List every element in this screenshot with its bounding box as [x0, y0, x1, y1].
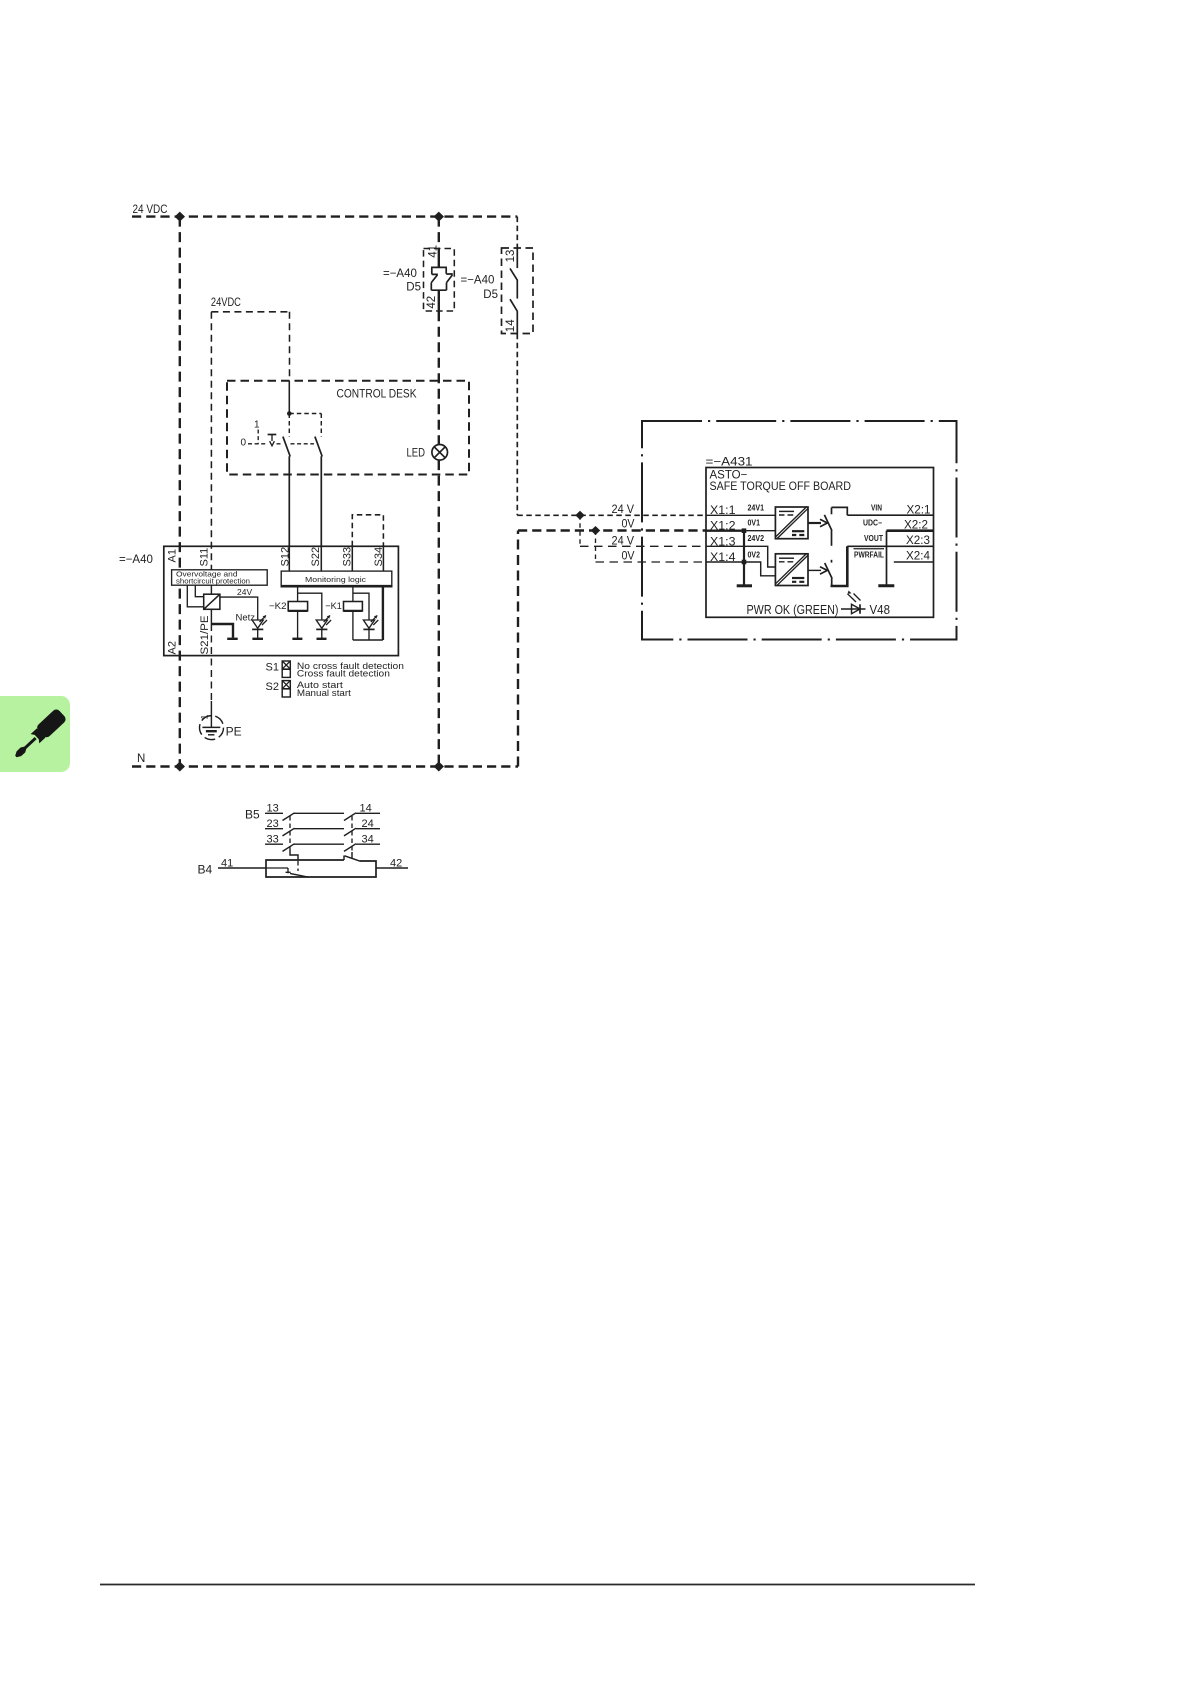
lamp LED	[407, 445, 448, 461]
svg-text:0V2: 0V2	[748, 551, 761, 560]
wire 24 V branch to X1:3	[580, 515, 706, 546]
svg-text:ASTO−: ASTO−	[710, 470, 748, 482]
LED Netz indicator	[252, 615, 267, 638]
contact B5 13-14	[265, 803, 380, 821]
svg-text:24V1: 24V1	[748, 504, 765, 513]
label =-A40	[119, 554, 153, 566]
mechanical linkage between poles	[291, 443, 315, 445]
wire VOUT to X2:3	[847, 545, 933, 547]
svg-text:Cross fault detection: Cross fault detection	[297, 668, 390, 678]
wire K1 branch to LED	[353, 593, 369, 620]
terminal label A1	[167, 549, 179, 562]
net label PWRFAIL (with overline)	[854, 549, 885, 560]
wire 0V branch to X1:4	[596, 531, 707, 563]
relay contact -A40 D5 terminals 13/14 (double-break NO)	[502, 248, 534, 334]
wire 0V line to X1:2 (thick, from N)	[518, 531, 706, 767]
LED K1 indicator	[363, 615, 378, 640]
ASTO board outline	[706, 468, 934, 618]
svg-text:0V: 0V	[622, 519, 635, 531]
svg-text:CONTROL DESK: CONTROL DESK	[337, 387, 417, 401]
terminal X1:3	[710, 537, 736, 549]
wire D5 branch middle segment	[438, 290, 440, 444]
relay coil -K1	[325, 586, 362, 640]
svg-text:X2:3: X2:3	[906, 535, 930, 547]
net label VIN	[871, 504, 882, 513]
svg-text:24V: 24V	[237, 587, 252, 597]
node junction top (24VDC bus / D5 branch)	[434, 212, 444, 222]
terminal label S34	[373, 547, 385, 567]
wire left vertical bus (A1 feed)	[179, 217, 181, 767]
DC/DC converter channel 2	[775, 553, 808, 585]
svg-text:X2:1: X2:1	[907, 505, 931, 517]
label =-A431	[706, 457, 753, 469]
wire converter output to Netz LED	[220, 597, 258, 620]
svg-text:−K1: −K1	[325, 601, 342, 612]
earth PE symbol	[200, 716, 242, 740]
label 24 VDC	[133, 204, 168, 216]
svg-text:LED: LED	[407, 446, 426, 460]
net label 24V2	[748, 534, 765, 543]
svg-text:41: 41	[428, 245, 440, 258]
wire 24VDC top bus	[132, 215, 517, 217]
label 24V	[237, 587, 252, 597]
svg-text:=−A40: =−A40	[119, 554, 153, 566]
labels 24 V / 0V / 24 V / 0V	[612, 504, 635, 563]
wire VIN to X2:1	[847, 514, 933, 516]
wire 0V2	[706, 562, 775, 576]
svg-text:Monitoring logic: Monitoring logic	[305, 575, 366, 584]
label 24VDC	[211, 297, 241, 309]
svg-text:PWRFAIL: PWRFAIL	[854, 551, 884, 560]
relay B4 block with contact 41-42	[218, 856, 408, 878]
svg-text:24V2: 24V2	[748, 534, 765, 543]
svg-text:B4: B4	[198, 863, 213, 877]
wire S33 into block	[351, 546, 353, 571]
wire PWRFAIL to X2:4	[894, 561, 934, 563]
wire 24 V line to X1:1	[517, 514, 706, 516]
svg-text:0V1: 0V1	[748, 519, 761, 528]
wire 0V to ground	[743, 531, 745, 585]
terminal X1:1	[710, 505, 736, 517]
wire N bottom bus	[132, 765, 518, 767]
wire 0V1 (thick)	[706, 530, 775, 532]
wire from 14 down to 24V feed corner	[516, 334, 518, 516]
wire S11 inside block	[210, 585, 212, 594]
svg-text:X2:4: X2:4	[906, 551, 931, 563]
svg-text:N: N	[137, 753, 145, 765]
wires overvoltage box to converter	[187, 585, 203, 607]
node junction on 24 V line	[575, 511, 584, 520]
label B4	[198, 863, 213, 877]
svg-text:A2: A2	[167, 641, 179, 654]
box CONTROL DESK	[227, 381, 469, 475]
wire D5 branch upper segment	[438, 217, 440, 268]
svg-text:V48: V48	[870, 603, 891, 617]
label Netz	[236, 613, 256, 624]
mechanical linkage right	[351, 816, 353, 858]
label N	[137, 753, 145, 765]
jumper S33-S34 (dashed bridge)	[352, 515, 383, 547]
LED K2 indicator	[316, 615, 331, 638]
svg-text:13: 13	[505, 250, 517, 263]
wire K2 branch to LED	[298, 593, 322, 620]
svg-text:14: 14	[505, 319, 517, 332]
svg-text:VIN: VIN	[871, 504, 882, 513]
wire VOUT return (thick U)	[831, 546, 848, 586]
monitoring logic box	[281, 571, 393, 586]
svg-text:=−A40: =−A40	[461, 275, 495, 287]
svg-text:VOUT: VOUT	[864, 534, 883, 543]
svg-text:B5: B5	[245, 808, 260, 822]
wire 24V2	[706, 546, 775, 567]
svg-text:D5: D5	[483, 289, 498, 301]
wire S34 into block	[382, 546, 384, 571]
ground UDC bar	[878, 584, 894, 587]
svg-text:0: 0	[241, 438, 247, 449]
svg-text:24VDC: 24VDC	[211, 297, 241, 309]
relay contact -A40 D5 terminals 41/42 (forcibly guided NC)	[424, 245, 455, 311]
wire S21/PE below block	[210, 624, 212, 727]
terminal label S33	[342, 547, 354, 567]
wire 24VDC box right edge to switch	[288, 312, 290, 414]
power supply converter (square with diagonal)	[204, 594, 220, 609]
switch S1 legend	[266, 661, 404, 679]
net label 0V2	[748, 551, 761, 560]
terminal X2:4	[906, 551, 931, 563]
wire D5 branch lower segment (LED to N)	[438, 460, 440, 766]
A40 block outline	[164, 546, 399, 655]
VIN jog	[832, 507, 848, 515]
svg-text:SAFE TORQUE OFF BOARD: SAFE TORQUE OFF BOARD	[710, 481, 852, 493]
wire 24V1	[706, 514, 775, 516]
icon installation (screwdriver on green)	[0, 696, 70, 772]
svg-text:S21/PE: S21/PE	[199, 616, 211, 655]
wire K1 return to S34	[353, 586, 383, 640]
switch actuator 1/0	[241, 420, 283, 449]
net label 24V1	[748, 504, 765, 513]
svg-text:Netz: Netz	[236, 613, 256, 624]
terminal X2:3	[906, 535, 930, 547]
overvoltage protection box	[172, 570, 268, 586]
terminal label S21/PE	[199, 616, 211, 655]
wire S12 into block	[288, 546, 290, 571]
node junction on 0V line	[591, 526, 600, 535]
footer rule	[100, 1584, 975, 1586]
gate drive arrow channel 1	[808, 519, 827, 526]
svg-text:24 VDC: 24 VDC	[133, 204, 168, 216]
svg-text:0V: 0V	[622, 551, 635, 563]
terminal X1:2	[710, 521, 736, 533]
svg-text:24 V: 24 V	[612, 536, 635, 548]
svg-text:S11: S11	[199, 548, 211, 567]
svg-text:S2: S2	[266, 681, 279, 693]
wire S11 (24VDC box left edge)	[210, 312, 212, 570]
terminal label 1	[200, 714, 210, 719]
svg-text:=−A40: =−A40	[383, 268, 417, 280]
terminal label S11	[199, 548, 211, 567]
svg-text:1: 1	[254, 420, 260, 431]
switch channel 1	[824, 507, 832, 545]
svg-text:24 V: 24 V	[612, 504, 635, 516]
node junction 0V1	[742, 528, 747, 533]
svg-text:A1: A1	[167, 549, 179, 562]
node junction switch feed	[287, 411, 292, 416]
enclosure A431 (chain line)	[642, 421, 957, 640]
net label 0V1	[748, 519, 761, 528]
svg-text:UDC−: UDC−	[863, 519, 882, 528]
switch pole 2 (to S22)	[315, 437, 322, 547]
wire S22 into block	[320, 546, 322, 571]
svg-text:D5: D5	[406, 282, 421, 294]
terminal X1:4	[710, 552, 736, 564]
contact B5 23-24	[265, 818, 380, 836]
node junction bottom (N bus / LED branch)	[434, 762, 444, 772]
terminal label S22	[310, 547, 322, 567]
ground 0V bar	[737, 584, 752, 587]
node junction bottom-left (N bus / left bus)	[175, 762, 185, 772]
gate drive arrow channel 2	[808, 567, 827, 574]
svg-text:S1: S1	[266, 662, 279, 674]
terminal X2:1	[907, 505, 931, 517]
terminal label S12	[280, 547, 292, 567]
switch pole 1 (to S12)	[283, 437, 290, 547]
net label VOUT	[864, 534, 883, 543]
wire switch feed branch	[289, 414, 321, 437]
svg-text:−K2: −K2	[269, 601, 287, 612]
switch channel 2	[825, 560, 832, 586]
svg-text:shortcircuit protection: shortcircuit protection	[176, 576, 250, 585]
relay coil -K2	[269, 586, 308, 639]
box 24VDC top edge	[211, 311, 289, 313]
svg-text:Manual start: Manual start	[297, 688, 351, 698]
svg-text:PWR OK (GREEN): PWR OK (GREEN)	[747, 603, 839, 617]
node junction top-left (24VDC bus / left bus)	[175, 212, 185, 222]
label B5	[245, 808, 260, 822]
wire 13 feed	[516, 217, 518, 248]
net label UDC-	[863, 519, 882, 528]
wire S21 thick link	[211, 609, 237, 639]
label =-A40 D5 (left of 41/42)	[383, 268, 421, 294]
terminal label A2	[167, 641, 179, 654]
svg-text:S22: S22	[310, 547, 322, 567]
contact B5 33-34	[265, 834, 380, 852]
LED V48 PWR OK	[747, 590, 891, 617]
label =-A40 D5 (right of 41/42)	[461, 275, 499, 302]
mechanical linkage left	[290, 816, 298, 871]
wire UDC- to X2:2 (thick)	[887, 531, 934, 585]
node junction 0V2	[742, 560, 747, 565]
svg-text:PE: PE	[226, 725, 242, 739]
switch S2 legend	[266, 680, 352, 698]
svg-text:X2:2: X2:2	[904, 520, 928, 532]
DC/DC converter channel 1	[775, 507, 808, 539]
svg-text:42: 42	[426, 296, 438, 309]
terminal X2:2	[904, 520, 928, 532]
